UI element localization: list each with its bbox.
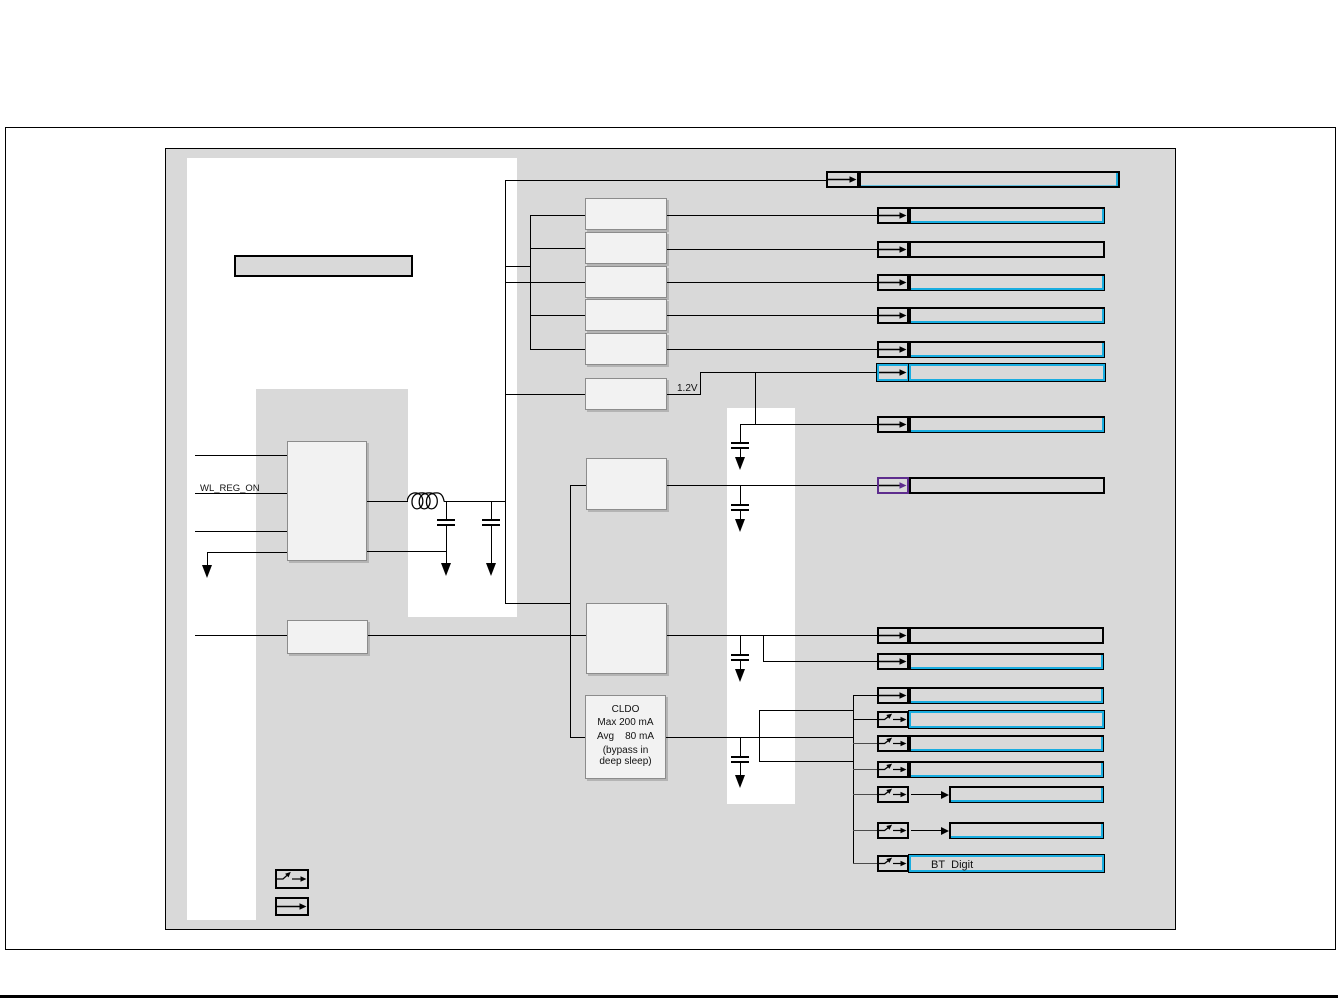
wire 1.2V branch to rail 7 [740,424,877,425]
capacitor C3 with ground [0,0,1,1]
wire inductor to supply bus [444,501,505,502]
wire LDO3 output to rail 3 [667,282,877,283]
title bar placeholder [234,255,413,277]
regulator block U1 (switcher) [287,441,367,561]
wire LDO1 output to rail 1 [667,215,877,216]
wire bus stub to rail 11 [853,695,877,696]
rail 4 [0,0,1,1]
rail 14 [0,0,1,1]
wire 1.2V branch down [755,372,756,424]
diagram gray canvas [165,148,1176,930]
LDO block 5 [585,333,667,365]
rail 8 (purple) [0,0,1,1]
wire LDO2 output to rail 2 [667,249,877,250]
wire input to lower-left block [195,635,287,636]
rail 13 [0,0,1,1]
wire arrow switch to bar y794 [911,794,942,795]
capacitor C2 with ground [0,0,1,1]
wire stub to LDO3 [505,282,585,283]
wire U1 output to inductor [367,501,408,502]
rail 2 [0,0,1,1]
white column capacitors [727,408,795,804]
wire bus jumper to bracket [505,266,531,267]
wire lower-left block to block B [368,635,586,636]
wire LDO4 output to rail 4 [667,315,877,316]
wire U1 ground branch horizontal [207,552,287,553]
rail 17 (BT Digit) [0,0,1,1]
capacitor C4 with ground [0,0,1,1]
ground arrow left [202,565,212,578]
block lower-left (bandgap) [287,620,368,654]
gray sub-panel around regulator [256,389,408,617]
CLDO text [585,703,666,744]
rail 5 [0,0,1,1]
capacitor C5 with ground [0,0,1,1]
LDO block 4 [585,299,667,331]
wire bus stub to rail 15 [853,794,877,795]
rail 1 [0,0,1,1]
wire bus to top rail row0 [505,180,826,181]
wire stub to LDO4 [530,315,585,316]
wire to rail 10 [763,661,877,662]
wire LDO6 output [667,394,701,395]
wire bus stub to rail 12 [853,719,877,720]
wire CLDO fanout upper [759,710,853,711]
legend switch symbol box [275,869,309,889]
block CLDO [585,695,666,779]
wire block A output to rail 8 [667,485,877,486]
wire stub to LDO5 [530,349,585,350]
wire block B output to rail 9 [667,635,877,636]
block B (core regulator) [586,603,667,674]
wire bus stub to rail 14 [853,769,877,770]
rail 12 [0,0,1,1]
rail 15 [0,0,1,1]
wire bus stub to rail 17 [853,863,877,864]
capacitor C6 with ground [0,0,1,1]
wire stub to LDO2 [530,248,585,249]
capacitor C1 with ground [0,0,1,1]
LDO block 6 (1.2V) [585,378,667,410]
inductor L1 [407,491,445,513]
legend arrow symbol box [275,897,309,916]
wire CLDO output [666,737,853,738]
rail 6 (1.2V) [0,0,1,1]
rail 7 [0,0,1,1]
distribution bus BT rails [853,695,854,864]
wire U1 ground branch vertical [207,552,208,566]
supply bus vertical VIO [505,180,506,603]
wire input 1 to U1 [195,455,287,456]
footer rule [0,995,1338,998]
wire input 3 to U1 [195,531,287,532]
wire CLDO fanout vertical [759,710,760,762]
wire input WL_REG_ON to U1 [195,493,287,494]
LDO block 2 [585,232,667,264]
rail 3 [0,0,1,1]
wire supply bus elbow [505,603,571,604]
white region top-left [187,158,517,617]
white column left [187,158,256,920]
net label WL_REG_ON [200,483,260,494]
LDO block 1 [585,198,667,230]
wire stub to LDO1 [530,215,585,216]
rail 11 [0,0,1,1]
wire bus to LDO6 [505,394,585,395]
bracket bus vertical [530,215,531,350]
wire 1.2V riser [700,372,701,394]
wire 1.2V net to rail 6 [700,372,877,373]
wire core bus to CLDO [570,737,585,738]
rail 10 [0,0,1,1]
wire arrow switch to bar y830 [911,830,942,831]
rail 16 [0,0,1,1]
wire bus stub to rail 16 [853,830,877,831]
wire bus stub to rail 13 [853,743,877,744]
wire core bus to block A [570,485,586,486]
rail 9 [0,0,1,1]
block A (LNLDO) [586,458,667,510]
rail 0 top (VBAT) [0,0,1,1]
wire U1 gnd pin to cap [367,551,447,552]
wire branch to rail 10 [763,635,764,661]
wire CLDO fanout lower [759,761,853,762]
LDO block 3 [585,266,667,298]
wire LDO5 output to rail 5 [667,349,877,350]
net label 1.2V [677,383,698,394]
core bus vertical [570,485,571,737]
